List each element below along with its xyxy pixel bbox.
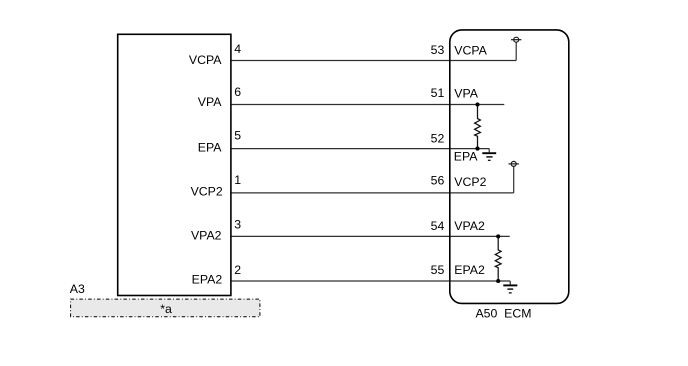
svg-text:5: 5 bbox=[234, 128, 241, 142]
svg-text:56: 56 bbox=[431, 173, 445, 187]
svg-text:2: 2 bbox=[234, 263, 241, 277]
svg-text:VCPA: VCPA bbox=[454, 44, 487, 58]
svg-text:VCP2: VCP2 bbox=[454, 175, 486, 189]
svg-text:1: 1 bbox=[234, 173, 241, 187]
svg-text:54: 54 bbox=[431, 219, 445, 233]
svg-text:VPA: VPA bbox=[454, 87, 478, 101]
svg-text:*a: *a bbox=[160, 302, 172, 316]
svg-text:VPA2: VPA2 bbox=[454, 219, 485, 233]
svg-text:3: 3 bbox=[234, 218, 241, 232]
svg-text:A3: A3 bbox=[70, 282, 85, 296]
svg-text:51: 51 bbox=[431, 86, 445, 100]
svg-text:4: 4 bbox=[234, 42, 241, 56]
svg-text:52: 52 bbox=[431, 131, 445, 145]
svg-text:55: 55 bbox=[431, 263, 445, 277]
svg-text:VCPA: VCPA bbox=[189, 53, 222, 67]
svg-text:53: 53 bbox=[431, 43, 445, 57]
svg-text:VPA2: VPA2 bbox=[191, 229, 222, 243]
svg-text:VCP2: VCP2 bbox=[191, 184, 223, 198]
svg-text:A50 ECM: A50 ECM bbox=[475, 307, 531, 321]
svg-text:EPA2: EPA2 bbox=[454, 263, 485, 277]
svg-text:EPA: EPA bbox=[454, 150, 478, 164]
svg-text:VPA: VPA bbox=[198, 95, 222, 109]
svg-text:EPA2: EPA2 bbox=[192, 272, 223, 286]
svg-text:6: 6 bbox=[234, 85, 241, 99]
svg-text:EPA: EPA bbox=[198, 141, 222, 155]
